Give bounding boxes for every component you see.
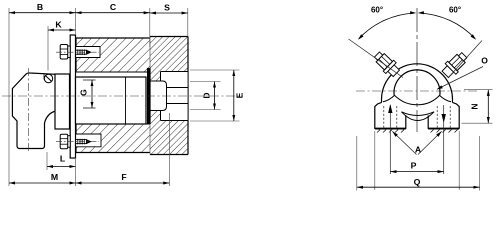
svg-text:D: D: [202, 92, 212, 98]
svg-text:O: O: [481, 56, 488, 66]
svg-text:60°: 60°: [449, 6, 461, 15]
top bolt: [56, 45, 99, 60]
body outline: [76, 37, 188, 155]
right 60 deg screw: [440, 50, 470, 80]
svg-text:Q: Q: [414, 177, 421, 187]
gland section bottom hatched: [150, 111, 188, 155]
svg-text:N: N: [470, 103, 480, 109]
flange plate: [70, 35, 75, 158]
right stud centerline with arrow: [442, 105, 446, 174]
small clamp screw on collar: [44, 74, 53, 82]
left stud centerline with arrow: [388, 104, 392, 174]
svg-text:P: P: [411, 161, 417, 171]
svg-text:S: S: [164, 3, 170, 13]
svg-text:E: E: [235, 92, 245, 98]
dimension M: [9, 159, 76, 186]
bottom bolt: [56, 134, 99, 149]
elbow vertical centerline: [28, 68, 30, 152]
dimension P: [390, 161, 443, 172]
top bolt clearance slot: [76, 47, 101, 58]
dimension A with leaders: [391, 130, 443, 154]
dimension C: [76, 2, 150, 47]
bore arc: [394, 70, 440, 95]
hub face joint line: [125, 77, 127, 124]
dimension N: [462, 90, 493, 124]
dimension K: [48, 20, 76, 71]
dimension Q: [357, 131, 480, 191]
gland boundary line: [149, 37, 151, 72]
left 60 deg screw: [372, 49, 402, 79]
svg-text:L: L: [60, 154, 66, 164]
vertical centerline: [416, 8, 418, 132]
dimension E: [190, 70, 245, 121]
pipe elbow on left: [12, 73, 55, 149]
main horizontal centerline: [2, 95, 243, 97]
left foot: [375, 102, 406, 128]
dimension F: [76, 113, 170, 186]
dimension B: [9, 2, 76, 186]
bottom bolt clearance slot: [76, 134, 102, 147]
gland section top hatched: [150, 37, 188, 81]
pipe saddle crescent: [402, 112, 435, 116]
hidden stud holes dashed: [384, 106, 450, 128]
seal gasket (solid black): [147, 68, 151, 124]
dimension D: [190, 82, 221, 110]
hub body: [76, 77, 147, 124]
dimension L: [47, 152, 76, 170]
clamp dome outer arc: [382, 64, 453, 102]
clamp body bottom band hatched: [76, 124, 150, 152]
svg-text:M: M: [51, 172, 58, 182]
svg-text:A: A: [415, 144, 422, 154]
svg-text:C: C: [110, 2, 117, 12]
feet bottom edge thick: [375, 128, 406, 130]
svg-text:B: B: [37, 2, 43, 12]
gland bore opening: [150, 72, 187, 120]
right foot: [428, 102, 459, 128]
O label with leader: [436, 56, 488, 91]
svg-text:F: F: [121, 172, 126, 182]
svg-text:K: K: [55, 20, 62, 30]
clamp body top band hatched: [76, 38, 150, 72]
right 60 deg radial line: [448, 41, 482, 79]
gland bore edges: [161, 72, 189, 121]
60 deg arc right with arrows: [418, 11, 478, 41]
left 60 deg radial line: [349, 39, 404, 78]
60 deg arc left with arrows: [357, 11, 417, 41]
horizontal centerline: [356, 90, 477, 92]
dimension S: [150, 3, 188, 37]
svg-text:60°: 60°: [371, 6, 383, 15]
hub collar: [55, 74, 70, 129]
pipe spigot inside gland: [151, 81, 189, 111]
svg-text:G: G: [79, 89, 89, 96]
inner shoulders: [383, 96, 394, 102]
dimension G: [79, 80, 96, 108]
saddle top curve: [394, 95, 440, 105]
